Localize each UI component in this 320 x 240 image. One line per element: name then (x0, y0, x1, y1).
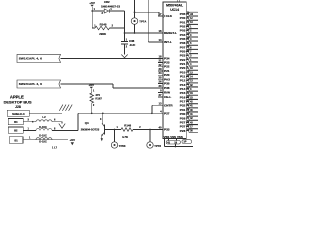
svg-text:J28: J28 (15, 105, 21, 109)
IC right pin 39 P20 (186, 51, 189, 53)
net box 3 for pin P04 (189, 33, 199, 37)
wire SW2/CAPL right (61, 83, 114, 85)
resistor R148 (121, 128, 133, 132)
svg-text:4.7K: 4.7K (122, 135, 129, 139)
test point TP63 (111, 142, 117, 148)
IC right pin 37 P06 (186, 42, 189, 44)
svg-text:CE-L: CE-L (164, 95, 171, 99)
svg-text:Q4: Q4 (85, 121, 89, 125)
wire from top edge to TP7A node (134, 0, 136, 18)
inductor L1 (36, 128, 52, 130)
IC left pin 24 P20 (158, 74, 163, 76)
wire SW2 jog (112, 84, 114, 88)
Q4 emitter arrowhead (101, 138, 103, 141)
wire from top edge to INT-L (147, 0, 149, 42)
wire ADB data bus (78, 112, 163, 114)
IC right pin 23 P16 (186, 96, 189, 98)
svg-text:B2: B2 (14, 129, 18, 133)
net box 4 for pin P05 (189, 37, 199, 41)
IC left pin 16 RESET-L (158, 32, 163, 34)
IC right pin 32 P01 (186, 21, 189, 23)
svg-text:27: 27 (159, 93, 163, 97)
IC left pin 18 P34 (158, 57, 163, 59)
wire shield to chassis ground (29, 112, 62, 114)
svg-text:40: 40 (159, 126, 163, 130)
net flag SW2/CAPL (17, 80, 61, 88)
IC right pin 30 P05 (186, 13, 189, 15)
VSS pin wire left (164, 139, 166, 147)
svg-text:TP78: TP78 (154, 144, 161, 148)
VSS joint box (166, 141, 180, 145)
wire +5V to R167 (91, 89, 93, 93)
svg-text:290K: 290K (99, 32, 107, 36)
svg-text:SW2/CAPL 4, 6: SW2/CAPL 4, 6 (19, 82, 42, 86)
bus riser (77, 113, 79, 130)
resistor R145 (95, 26, 110, 30)
svg-text:DESKTOP BUS: DESKTOP BUS (4, 99, 32, 104)
svg-text:B1: B1 (14, 139, 18, 143)
wire pin2 to L1 (23, 129, 36, 131)
svg-text:P36: P36 (164, 86, 170, 90)
net box 34 for pin P15 (189, 91, 199, 95)
IC right pin 40 P30 (186, 113, 189, 115)
svg-text:22: 22 (159, 63, 163, 67)
net box bottom right (182, 140, 192, 144)
IC right pin 24 P17 (186, 101, 189, 103)
svg-text:P35: P35 (164, 82, 170, 86)
net box 17 for pin P37 (189, 125, 199, 129)
IC right pin 16 P10 (186, 71, 189, 73)
net box 36 for pin P26 (189, 129, 199, 133)
svg-text:+5V: +5V (70, 138, 77, 142)
net box 3 for pin P14 (189, 87, 199, 91)
IC right pin 14 P12 (186, 80, 189, 82)
net box A0 for pin P05 (189, 12, 199, 16)
net box 42 for pin P26 (189, 116, 199, 120)
wire Q4 emitter down (101, 136, 103, 139)
wire pin4 to L2 (23, 121, 36, 123)
IC right pin 13 P11 (186, 76, 189, 78)
net flag SW1/CAPL (17, 54, 61, 62)
IC right pin 5 P20 (186, 67, 189, 69)
wire SW1/CAPL to P34 (61, 57, 164, 59)
wire L1 to bus riser (52, 129, 78, 131)
connector pin 1 box (9, 137, 23, 144)
capacitor C38 (121, 41, 128, 43)
svg-text:D-15C: D-15C (39, 140, 47, 144)
net box 13 for pin P01 (189, 21, 199, 25)
svg-text:470: 470 (95, 93, 100, 97)
svg-text:INT-L: INT-L (164, 40, 172, 44)
svg-text:TP63: TP63 (119, 144, 126, 148)
IC left pin 25 PA3 (158, 78, 163, 80)
IC left pin 23 P21 (158, 70, 163, 72)
connector pin 4 box (8, 119, 23, 125)
svg-text:R145: R145 (100, 23, 107, 27)
svg-text:L2: L2 (42, 115, 46, 119)
IC left pin 4 P27 (158, 112, 163, 114)
svg-text:23: 23 (159, 67, 163, 71)
svg-text:SW1/CAPL 4, 6: SW1/CAPL 4, 6 (19, 57, 42, 61)
IC left pin 5 R/W (158, 92, 163, 94)
net box 5 for pin P06 (189, 41, 199, 45)
svg-text:+5V: +5V (89, 1, 96, 5)
svg-text:13: 13 (159, 101, 163, 105)
svg-text:D-15C: D-15C (39, 133, 47, 137)
svg-text:18: 18 (159, 55, 163, 59)
IC right pin 3 P22 (186, 59, 189, 61)
wire bus to CNTR (151, 105, 153, 113)
svg-text:21: 21 (159, 59, 163, 63)
transistor Q4 (104, 124, 106, 134)
net box 12 for pin P00 (189, 16, 199, 20)
svg-text:R/W: R/W (164, 91, 170, 95)
VSS bottom wire (165, 146, 194, 148)
wire R145 to right rail (110, 27, 125, 29)
IC right pin 42 P27 (186, 121, 189, 123)
wire L2 to ground (52, 121, 62, 123)
net box 41 for pin P32 (189, 104, 199, 108)
IC right pin 33 P02 (186, 26, 189, 28)
VSS ground drop wire (174, 144, 176, 147)
IC right pin 4 P21 (186, 63, 189, 65)
svg-text:RESET-L: RESET-L (164, 31, 177, 35)
svg-text:25: 25 (159, 75, 163, 79)
wire to CLK (135, 11, 160, 13)
ground for pin4 (59, 124, 65, 129)
IC right pin 42 P32 (186, 105, 189, 107)
IC right pin 32 P13 (186, 84, 189, 86)
net box 43 for pin P27 (189, 121, 199, 125)
net box 7 for pin P20 (189, 50, 199, 54)
IC right pin 41 P26 (186, 117, 189, 119)
diode CR2 (104, 9, 109, 13)
net box 1 for pin P22 (189, 58, 199, 62)
IC left pin 27 CE-L (158, 96, 163, 98)
svg-text:1P: 1P (183, 141, 186, 144)
net box 41 for pin P30 (189, 112, 199, 116)
svg-text:VSS: VSS (164, 135, 170, 139)
wire reset node to RESET-L pin (125, 32, 164, 34)
test point TP7A (131, 18, 138, 25)
VSS pin stub 19 (176, 139, 178, 141)
net box 16 for pin P20 (189, 66, 199, 70)
svg-text:R167: R167 (95, 97, 102, 101)
svg-text:CR2: CR2 (104, 0, 110, 4)
wire +5V down left rail (91, 7, 93, 28)
IC left pin 40 P33 (158, 129, 163, 131)
IC right pin 34 P03 (186, 30, 189, 32)
IC left pin 14 INT-L (158, 41, 163, 43)
net box 6 for pin P07 (189, 46, 199, 50)
svg-text:M50740AL: M50740AL (166, 4, 183, 8)
IC left pin 13 CNTR (158, 104, 163, 106)
svg-text:16: 16 (159, 29, 163, 33)
IC right pin 2 P23 (186, 55, 189, 57)
IC right pin 43 P31 (186, 109, 189, 111)
svg-text:+5V: +5V (89, 83, 96, 87)
net box 13 for pin P12 (189, 79, 199, 83)
IC right pin 34 P15 (186, 92, 189, 94)
svg-text:P26: P26 (180, 129, 186, 133)
svg-text:20: 20 (159, 84, 163, 88)
net box 4 for pin P21 (189, 62, 199, 66)
net box 23 for pin P16 (189, 96, 199, 100)
IC right pin 43 P37 (186, 126, 189, 128)
ground below C38 (121, 55, 127, 58)
svg-text:P33: P33 (164, 128, 170, 132)
IC left pin 26 P35 (158, 83, 163, 85)
IC left pin 21 P23 (158, 62, 163, 64)
IC left pin 20 P36 (158, 87, 163, 89)
net box 2 for pin P03 (189, 29, 199, 33)
connector shield pin box (7, 110, 29, 116)
svg-text:TP7A: TP7A (139, 19, 146, 23)
wire pin1 right (23, 139, 68, 141)
inductor L3 (36, 138, 52, 140)
wire Q4 base to R148 (105, 129, 122, 131)
svg-text:CNTR: CNTR (164, 103, 173, 107)
wire R148 to P33 (133, 129, 163, 131)
net box 3 for pin P23 (189, 54, 199, 58)
svg-text:VSS: VSS (177, 135, 183, 139)
IC right pin 38 P07 (186, 46, 189, 48)
IC left pin 17 CLK (158, 15, 163, 17)
wire R167 to data bus (91, 103, 93, 113)
net box 40 for pin P31 (189, 108, 199, 112)
svg-text:26: 26 (159, 80, 163, 84)
chassis ground hatching (59, 105, 63, 111)
inductor L2 (36, 120, 52, 122)
wire TP7A to reset net (134, 24, 136, 33)
svg-text:SHIELD.3: SHIELD.3 (12, 112, 25, 116)
svg-text:VSS: VSS (170, 135, 176, 139)
svg-text:.1UF: .1UF (129, 43, 135, 47)
wire left rail to R145 (92, 27, 95, 29)
wire SW2 to P36 (113, 87, 163, 89)
svg-text:1 L7: 1 L7 (52, 146, 58, 149)
svg-text:2N3904-SOT23: 2N3904-SOT23 (81, 128, 100, 132)
IC right pin 39 P26 (186, 130, 189, 132)
svg-text:1N914/4827-23: 1N914/4827-23 (101, 4, 120, 8)
svg-text:CLK: CLK (166, 14, 173, 18)
net box 32 for pin P13 (189, 83, 199, 87)
net box 13 for pin P10 (189, 71, 199, 75)
wire TP78 drop (149, 130, 151, 142)
IC right pin 35 P04 (186, 34, 189, 36)
net box 1 for pin P02 (189, 25, 199, 29)
svg-text:UC14: UC14 (170, 8, 179, 12)
net box 42 for pin P17 (189, 100, 199, 104)
VSS pin stub 41 (168, 139, 170, 141)
net box 14 for pin P11 (189, 75, 199, 79)
wire top rail (92, 10, 104, 12)
svg-text:B4: B4 (14, 120, 18, 124)
connector pin 2 box (8, 127, 23, 133)
IC left pin 22 P22 (158, 66, 163, 68)
test point TP78 (147, 142, 153, 148)
wire diode to right rail (109, 10, 124, 12)
wire bus down to Q4 collector (102, 113, 104, 123)
IC UC14 M50740AL body (163, 2, 186, 139)
IC right pin 36 P05 (186, 38, 189, 40)
svg-text:14: 14 (159, 38, 163, 42)
right rail down (124, 11, 126, 42)
IC right pin 31 P00 (186, 17, 189, 19)
IC top edge stub (cut off) (176, 0, 178, 2)
wire C38 to ground (124, 44, 126, 55)
IC right pin 33 P14 (186, 88, 189, 90)
svg-text:P27: P27 (164, 111, 170, 115)
svg-text:24: 24 (159, 71, 163, 75)
wire TP63 drop (114, 130, 116, 142)
svg-text:R148: R148 (124, 123, 131, 127)
resistor R167 (90, 93, 94, 103)
